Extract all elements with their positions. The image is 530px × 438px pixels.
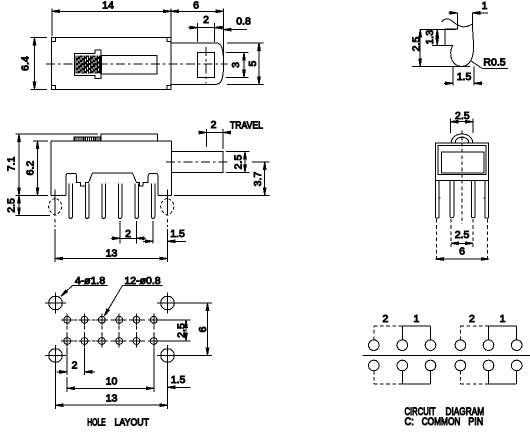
label CIRCUIT DIAGRAM xyxy=(405,406,485,418)
side view: actuator shaft xyxy=(172,152,224,173)
svg-text:HOLE: HOLE xyxy=(87,418,106,429)
dim 2 (pin pitch) xyxy=(111,221,146,244)
dim 2.5 (end view bottom) xyxy=(451,229,473,245)
dim 7.1 xyxy=(6,134,98,195)
svg-text:LAYOUT: LAYOUT xyxy=(115,418,150,429)
side view: pin 1 shoulder xyxy=(66,173,85,195)
hole layout: four 1.8mm holes xyxy=(45,293,178,367)
dim 6 (end view) xyxy=(436,246,489,261)
dim 5 (housing width) xyxy=(227,43,264,85)
svg-text:10: 10 xyxy=(106,376,118,388)
dim 2.5 (hole rows) xyxy=(159,320,191,341)
dim 6.4 (body width) xyxy=(20,38,48,90)
end view: vertical centerline xyxy=(461,131,463,225)
svg-text:6.4: 6.4 xyxy=(20,56,32,71)
svg-text:6: 6 xyxy=(459,246,465,258)
side view: body outline xyxy=(51,141,171,195)
side view: shaft centerline xyxy=(166,161,229,163)
circuit: position 2 dashed link bottom xyxy=(460,371,488,384)
hole layout: dashed centerlines xyxy=(61,314,160,348)
svg-text:3: 3 xyxy=(230,62,242,68)
circuit: position 1 solid link top xyxy=(489,326,517,340)
svg-text:5: 5 xyxy=(247,61,259,67)
svg-text:R0.5: R0.5 xyxy=(483,57,505,69)
dim 2 (hole cols) xyxy=(57,348,96,375)
svg-text:1.3: 1.3 xyxy=(424,30,436,45)
dim 14 (body length) xyxy=(52,0,171,40)
svg-text:2.5: 2.5 xyxy=(455,110,470,122)
svg-text:TRAVEL: TRAVEL xyxy=(230,120,263,131)
leader R0.5 xyxy=(470,57,508,69)
hole layout: twelve 0.8mm holes xyxy=(61,314,159,347)
circuit: contact circles xyxy=(369,340,523,371)
svg-text:2: 2 xyxy=(382,313,388,325)
svg-text:2.5: 2.5 xyxy=(6,198,18,213)
svg-text:6: 6 xyxy=(193,0,199,11)
dim 2 TRAVEL xyxy=(199,119,264,149)
dim 1 (pin width, detail) xyxy=(449,0,489,14)
end view: window xyxy=(442,152,484,173)
dim 1.3 (detail) xyxy=(424,29,445,45)
svg-text:2: 2 xyxy=(211,119,217,131)
dim 1.5 (hole layout) xyxy=(168,374,191,389)
dim 10 (hole layout) xyxy=(67,348,154,392)
end view: front pins xyxy=(450,181,475,218)
end view: right leg xyxy=(484,181,489,218)
svg-text:2: 2 xyxy=(203,14,209,26)
top view: actuator housing with rounded end xyxy=(171,43,224,85)
svg-text:1.5: 1.5 xyxy=(170,228,185,240)
dim 2.5 (end view top) xyxy=(450,110,473,133)
leader 12-dia0.8 xyxy=(104,275,162,316)
svg-text:6.2: 6.2 xyxy=(25,161,37,176)
label C: COMMON PIN xyxy=(405,416,484,428)
svg-text:13: 13 xyxy=(106,393,118,405)
dim 3.7 xyxy=(174,162,270,195)
dim 2.5 (shaft height) xyxy=(226,152,250,173)
circuit: separator line xyxy=(362,355,530,357)
end view: inner housing line xyxy=(438,146,486,175)
dim 2.5 (leg height) xyxy=(6,195,50,215)
dim 3 (stem height) xyxy=(226,53,249,78)
top view: corner relief marks xyxy=(52,38,172,90)
svg-text:0.8: 0.8 xyxy=(236,16,251,28)
svg-text:1.5: 1.5 xyxy=(457,71,472,83)
svg-text:2: 2 xyxy=(72,360,78,372)
svg-text:2: 2 xyxy=(469,313,475,325)
svg-text:C:: C: xyxy=(405,416,414,428)
svg-text:1: 1 xyxy=(500,313,506,325)
end view: left leg xyxy=(436,181,441,218)
top view: knurled slider knob xyxy=(75,56,100,74)
top view: slider shaft xyxy=(101,55,157,74)
circuit: position labels xyxy=(382,313,419,325)
detail view: break wave line xyxy=(442,19,474,27)
side view: metal cover tab xyxy=(101,134,157,141)
svg-text:1.5: 1.5 xyxy=(171,374,186,386)
svg-text:2: 2 xyxy=(125,228,131,240)
circuit: position 2 dashed link top xyxy=(460,326,488,340)
dim 6 (housing length) xyxy=(171,0,224,62)
circuit: position 1 solid link bottom xyxy=(402,371,430,384)
top view: horizontal centerline xyxy=(46,63,228,65)
svg-text:3.7: 3.7 xyxy=(252,172,264,187)
dim 2.5 (detail) xyxy=(411,29,471,66)
detail view: terminal pin upper edges xyxy=(458,13,473,26)
dim 1.5 (detail) xyxy=(444,66,482,85)
dim 2 (stem width) xyxy=(189,14,224,42)
circuit: position 1 solid link top xyxy=(402,326,430,340)
side view: left mounting leg xyxy=(49,190,62,228)
leader 4-dia1.8 xyxy=(61,275,108,296)
dim 0.8 xyxy=(224,16,251,31)
circuit: position 1 solid link bottom xyxy=(489,371,517,384)
side view: terminal pins xyxy=(69,184,155,219)
end view: extension dashes below xyxy=(437,219,488,262)
side view: body bottom edges xyxy=(51,194,171,196)
detail view: terminal step xyxy=(445,21,457,46)
circuit: position labels xyxy=(469,313,506,325)
circuit: position 2 dashed link bottom xyxy=(374,371,403,384)
top view: switch body outline xyxy=(52,38,172,90)
svg-text:6: 6 xyxy=(197,326,209,332)
side view: pin 6 shoulder xyxy=(143,173,158,195)
svg-text:7.1: 7.1 xyxy=(6,157,18,172)
dim 6.2 xyxy=(25,141,48,195)
svg-text:1: 1 xyxy=(413,313,419,325)
svg-text:14: 14 xyxy=(102,0,114,11)
end view: outer housing xyxy=(436,143,489,181)
svg-text:2.5: 2.5 xyxy=(455,229,470,241)
side view: center insulator block xyxy=(85,173,143,186)
side view: knurled knob (side) xyxy=(74,137,101,141)
top view: knob step outline xyxy=(74,50,101,79)
svg-text:2.5: 2.5 xyxy=(411,37,423,52)
svg-text:1: 1 xyxy=(482,0,488,12)
side view: right mounting leg xyxy=(161,190,174,228)
svg-text:PIN: PIN xyxy=(468,416,483,428)
label HOLE LAYOUT xyxy=(87,418,149,429)
svg-text:13: 13 xyxy=(106,247,118,259)
circuit: position 2 dashed link top xyxy=(374,326,403,340)
svg-text:2.5: 2.5 xyxy=(176,323,188,338)
dim 13 (side) xyxy=(55,229,167,262)
svg-text:COMMON: COMMON xyxy=(422,416,461,428)
top view: stem vertical centerline xyxy=(205,47,207,84)
dim 1.5 (side) xyxy=(143,221,186,244)
top view: actuator stem rectangle xyxy=(198,53,215,78)
dim 6 (hole layout) xyxy=(176,303,212,356)
dim 13 (hole layout) xyxy=(56,363,168,409)
detail view: terminal bulb xyxy=(451,26,474,67)
svg-text:2.5: 2.5 xyxy=(233,155,245,170)
end view: actuator dome xyxy=(451,134,472,143)
